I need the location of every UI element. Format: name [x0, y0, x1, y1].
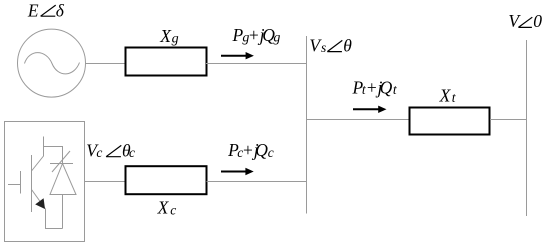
body bar	[31, 155, 33, 212]
gate lead	[8, 184, 21, 186]
svg-text:t: t	[452, 90, 457, 105]
diode D1	[50, 151, 76, 229]
label Pt+jQt	[352, 78, 398, 98]
svg-text:c: c	[268, 145, 274, 160]
transistor Q1 (IGBT)	[8, 137, 63, 229]
reactance Xt	[410, 108, 490, 135]
label E∠δ	[27, 0, 65, 20]
reactance Xg	[126, 48, 207, 76]
power flow arrow Pc+jQc	[221, 168, 254, 175]
svg-text:g: g	[273, 31, 280, 46]
converter VSC U1	[5, 122, 85, 242]
cathode bar	[50, 163, 73, 165]
svg-text:θ: θ	[343, 35, 352, 55]
power flow arrow Pt+jQt	[353, 106, 387, 113]
label Xt	[439, 86, 457, 106]
wire converter to Xc	[84, 181, 125, 183]
collector to diode link	[44, 147, 63, 164]
anode lead	[62, 195, 64, 229]
svg-text:s: s	[321, 40, 326, 55]
svg-text:E: E	[27, 0, 39, 20]
label Vc∠θc	[86, 140, 135, 160]
svg-text:0: 0	[533, 11, 542, 31]
wire Xt to grid	[490, 119, 527, 121]
svg-text:X: X	[439, 86, 452, 106]
wire Xc to bus	[207, 181, 307, 183]
collector path	[32, 137, 44, 172]
svg-text:c: c	[96, 145, 102, 160]
wire bus to Xt	[307, 119, 410, 121]
svg-text:c: c	[129, 145, 135, 160]
gate bar	[20, 171, 22, 194]
svg-text:g: g	[172, 32, 179, 47]
wire generator to Xg	[85, 63, 126, 65]
svg-text:X: X	[159, 26, 172, 46]
svg-text:V: V	[508, 11, 521, 31]
svg-text:Q: Q	[255, 140, 268, 160]
label Vs∠θ	[309, 35, 352, 55]
reactance Xc	[126, 166, 207, 194]
grid node V	[526, 40, 528, 216]
wire Xg to bus	[206, 63, 307, 65]
bus node Vs	[306, 36, 308, 214]
svg-text:t: t	[393, 82, 398, 97]
generator G	[18, 29, 86, 97]
label Xg	[159, 26, 178, 47]
label Xc	[157, 198, 177, 218]
label V∠0	[508, 11, 542, 31]
slash through bar	[52, 151, 70, 172]
emitter arrowhead	[35, 198, 45, 209]
svg-text:X: X	[157, 198, 170, 218]
label Pc+jQc	[227, 140, 274, 160]
svg-text:c: c	[170, 202, 176, 217]
label Pg+jQg	[232, 25, 281, 46]
svg-text:δ: δ	[56, 0, 65, 20]
triangle	[50, 164, 76, 195]
emitter path	[32, 190, 63, 229]
svg-text:Q: Q	[380, 78, 393, 98]
power flow arrow Pg+jQg	[221, 52, 254, 59]
